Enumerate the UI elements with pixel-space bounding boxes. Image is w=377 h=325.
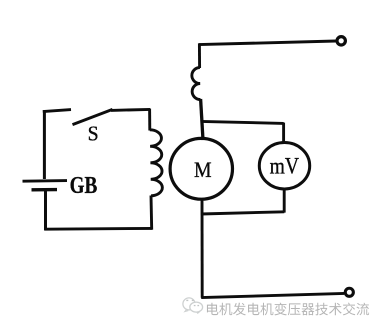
watermark wechat logo	[183, 298, 203, 313]
wire top of battery loop right of switch	[111, 109, 150, 110]
terminal bottom-right	[345, 288, 353, 296]
wire from coil down to motor M top	[201, 99, 203, 140]
motor M circle	[170, 138, 232, 199]
wire left side upper (corner to battery)	[43, 110, 46, 179]
wire right side lower of battery loop	[150, 196, 154, 230]
wire bottom link horizontal to voltmeter bottom	[201, 212, 284, 214]
inductor L2 secondary coil (2 bumps)	[192, 68, 201, 100]
battery GB long plate	[23, 179, 68, 182]
svg-text:GB: GB	[70, 173, 98, 199]
wire top-left horizontal of battery loop	[43, 110, 71, 112]
wire motor bottom vertical long	[201, 200, 204, 297]
wire from top corner down to secondary coil	[198, 43, 201, 68]
wire bottom of battery loop	[44, 227, 152, 231]
svg-text:M: M	[194, 157, 212, 182]
wire junction horizontal to voltmeter top	[201, 121, 284, 123]
inductor L1 primary coil (4 bumps)	[150, 130, 163, 196]
switch S blade (open)	[73, 109, 113, 124]
wire voltmeter bottom vertical	[283, 190, 286, 213]
svg-text:S: S	[88, 122, 99, 146]
wire bottom to right terminal	[201, 293, 344, 297]
battery GB short plate	[32, 188, 58, 192]
wire right side upper of battery loop	[148, 109, 151, 131]
wire top to right terminal	[199, 41, 336, 45]
watermark text 电机发电机变压器技术交流	[207, 303, 369, 316]
svg-text:mV: mV	[270, 153, 300, 178]
wire left side lower (battery to bottom corner)	[44, 191, 47, 230]
wire voltmeter top vertical	[282, 123, 285, 144]
voltmeter mV circle	[259, 143, 309, 189]
terminal top-right	[337, 37, 345, 45]
